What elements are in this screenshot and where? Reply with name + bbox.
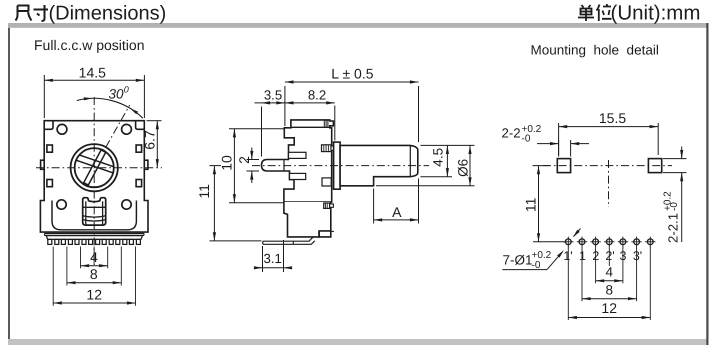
dimension 8 mounting [582,282,637,300]
svg-text:(Dimensions): (Dimensions) [49,2,167,24]
svg-text:8.2: 8.2 [308,87,326,102]
svg-text:8: 8 [605,282,613,297]
side shaft chamfer ring [409,145,411,176]
front right side tab [144,160,148,169]
svg-text:0: 0 [124,85,129,95]
svg-text:2-2: 2-2 [502,126,521,141]
front body lower recess [52,201,136,230]
dimension 4 front [81,249,108,267]
svg-text:7-Ø1: 7-Ø1 [503,253,533,268]
side shaft centerline [252,165,429,167]
svg-text:11: 11 [523,197,539,212]
svg-text:6.7: 6.7 [141,130,157,150]
dimension 3.5 side [255,87,286,156]
svg-text:3': 3' [633,249,642,263]
mounting left slot [557,159,570,173]
svg-text:14.5: 14.5 [79,64,106,80]
dimension 4.5 side [421,145,453,176]
front center barrel [83,198,106,225]
dimension A side [374,179,419,224]
mounting hole extension lines [568,247,650,321]
front arc arrow left [84,97,93,100]
svg-text:A: A [392,204,402,220]
svg-text:1: 1 [579,249,586,263]
side pin cap line [283,160,285,172]
title 单位(Unit):mm [578,1,700,24]
front horizontal centerline [36,167,162,169]
dimension 2-2 slot width [502,124,590,157]
front left wall slot lower [47,180,53,187]
mounting vertical centerline [608,160,610,207]
side cap hatch [324,120,328,127]
side left tab lower [290,173,306,179]
svg-text:8: 8 [90,266,98,282]
front vertical centerline [93,97,95,265]
side bracket hatched tab [324,203,334,208]
side right tab lower [322,178,331,186]
front top-left hole [57,124,67,134]
front left wall slot upper [47,145,53,152]
dimension 12 front [53,287,135,305]
side shaft [340,145,418,185]
dimension 2-2.1 mounting [663,147,687,244]
svg-text:12: 12 [601,300,617,316]
front rotor inner circle [75,148,114,187]
mounting pin holes 7x [563,237,655,247]
front bottom-right hole [122,200,131,209]
svg-text:12: 12 [86,287,102,303]
svg-text:4.5: 4.5 [431,148,446,167]
svg-text:Full.c.c.w position: Full.c.c.w position [34,37,144,53]
side lower bracket [284,202,331,237]
front 30deg label [109,85,129,102]
title 尺寸(Dimensions) [16,2,167,24]
mounting horizontal centerline [543,165,672,167]
front right wall slot lower [136,180,142,187]
svg-text:4: 4 [605,264,613,279]
mounting hole labels [563,249,642,263]
front 30deg position line [106,105,130,147]
svg-text:3.5: 3.5 [264,87,282,102]
front slot cross chords [76,155,113,173]
svg-text:2: 2 [236,156,252,164]
svg-text:-0: -0 [522,134,531,145]
front top-right hole [122,124,132,134]
dimension 3.1 side [254,240,292,272]
svg-text:L ± 0.5: L ± 0.5 [331,66,373,82]
svg-text:15.5: 15.5 [599,110,626,126]
dimension diameter 6 side [376,145,475,185]
dimension 11 side [196,166,262,241]
svg-text:4: 4 [90,249,98,265]
dimension 14.5 front width [44,64,144,118]
front terminal pins [48,239,141,244]
svg-text:30: 30 [109,87,125,102]
dimension 8 front [67,266,121,284]
front rotor outer circle [71,144,118,191]
dimension 15.5 mounting [559,110,659,155]
front pin extension lines [53,247,135,306]
svg-text:2': 2' [605,249,614,263]
side right tab upper hatched [322,145,334,152]
svg-text:(Unit):mm: (Unit):mm [611,1,701,24]
side bracket foot [319,231,334,237]
front left side tab [41,160,45,169]
front view body outline [40,121,148,232]
svg-text:2-2.1: 2-2.1 [666,213,681,243]
svg-text:Ø6: Ø6 [455,159,470,177]
front body top-left corner notch [44,121,53,130]
dimension 6.7 front [141,121,161,168]
svg-text:3.1: 3.1 [264,251,282,266]
front shaft slot [84,150,106,185]
dimension 2 side [236,148,259,184]
front right wall slot upper [136,145,142,152]
front insulator band [46,236,142,240]
side view body outline [262,120,334,202]
front bottom-left hole [57,200,66,209]
dimension L+-0.5 [285,66,419,143]
side mounting plate [334,142,341,189]
side left tab upper [289,152,307,158]
label Full.c.c.w position [34,37,144,53]
svg-text:-0: -0 [669,202,680,211]
label Mounting hole detail [531,42,659,57]
dimension 8.2 side [285,87,335,140]
dimension 12 mounting [568,300,650,319]
svg-text:Mounting hole detail: Mounting hole detail [531,42,659,57]
front base plate [45,233,145,235]
front body top-right corner notch [136,121,145,130]
svg-text:11: 11 [196,184,212,199]
front rotation arc [77,98,143,118]
leader 7-diameter-1 label [502,229,580,272]
svg-text:10: 10 [219,155,235,171]
front arc arrow right [130,108,138,114]
mounting right slot [648,159,661,173]
dimension 10 side [219,129,284,203]
dimension 4 mounting [596,264,623,282]
dimension 11 mounting [523,166,566,242]
side terminal bar [263,237,315,244]
